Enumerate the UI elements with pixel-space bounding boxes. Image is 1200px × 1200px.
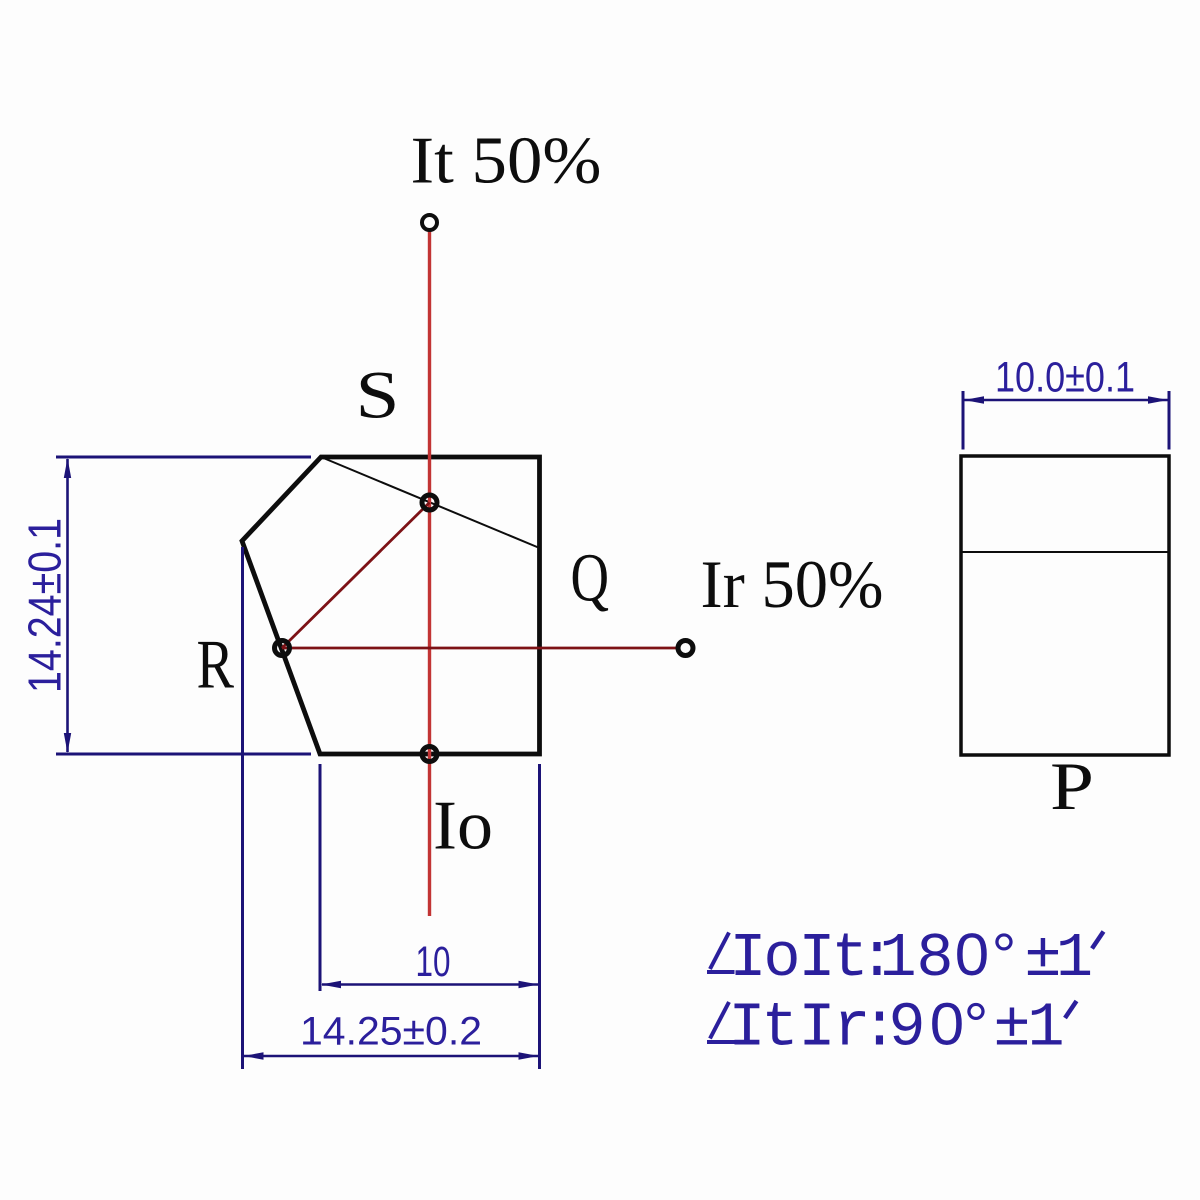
svg-text:14.24±0.1: 14.24±0.1 [19, 518, 71, 693]
svg-text:It 50%: It 50% [411, 124, 602, 198]
svg-text:P: P [1050, 748, 1094, 824]
Ir output circle [678, 641, 693, 656]
svg-text:ItIr:90°±1: ItIr:90°±1 [728, 993, 1064, 1064]
dimension 14.25±0.2 bottom [243, 547, 539, 1069]
ray It-Io vertical red line [428, 231, 431, 916]
reflection point dot on beamsplitter [422, 495, 437, 510]
dimension 10.0±0.1 top right [963, 391, 1169, 450]
prism pentagon outline [242, 457, 540, 754]
beamsplitter internal diagonal line [321, 457, 540, 548]
ray Ir horizontal dark red [282, 647, 676, 650]
ray reflected diagonal dark red [282, 503, 430, 649]
svg-text:S: S [356, 357, 400, 433]
svg-text:Io: Io [433, 788, 493, 865]
It source circle [422, 215, 437, 230]
svg-text:Ir 50%: Ir 50% [701, 546, 884, 622]
angle note line 1 angle symbol [707, 933, 735, 973]
dimension 10 bottom [320, 764, 540, 1069]
svg-text:R: R [197, 627, 235, 704]
svg-text:Q: Q [571, 540, 610, 616]
svg-text:14.25±0.2: 14.25±0.2 [300, 1010, 482, 1054]
svg-text:10: 10 [416, 938, 451, 986]
svg-text:IoIt:180°±1: IoIt:180°±1 [729, 923, 1093, 994]
reflection point dot R [275, 641, 290, 656]
point dot on Io face [422, 747, 437, 762]
P-view rectangle [961, 456, 1169, 755]
svg-text:10.0±0.1: 10.0±0.1 [995, 354, 1135, 402]
P-view inner horizontal line [961, 551, 1169, 553]
dimension 14.24±0.1 left [56, 457, 311, 754]
angle note line 2 angle symbol [707, 1002, 736, 1042]
